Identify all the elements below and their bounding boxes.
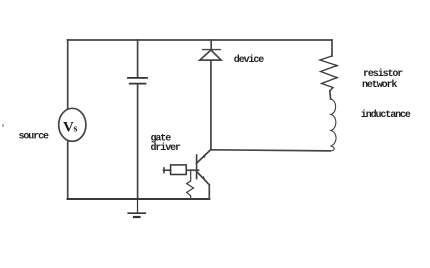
resistor: gate series resistor (box) <box>171 165 187 175</box>
transistor collector arrowhead <box>203 153 207 159</box>
svg-text:network: network <box>362 79 397 91</box>
svg-text:V: V <box>63 120 74 136</box>
source Vs <box>59 108 86 141</box>
capacitor C <box>128 78 147 84</box>
transistor emitter arrowhead <box>202 176 206 181</box>
ground symbol <box>128 199 145 217</box>
svg-text:device: device <box>234 54 265 66</box>
svg-text:resistor: resistor <box>363 68 403 80</box>
wire: gate resistor to base bar <box>186 169 198 171</box>
wire: capacitor top stub from top bus <box>137 40 139 77</box>
svg-text:inductance: inductance <box>361 109 411 121</box>
diode D (device) <box>200 50 221 61</box>
inductor L (inductance) <box>330 99 336 151</box>
stray scan speck (decorative) <box>2 124 4 127</box>
wire: diode stub from top bus <box>210 40 212 49</box>
wire: left vertical from top bus down to source top <box>67 40 69 108</box>
svg-text:s: s <box>74 124 78 135</box>
wire: switch node horizontal to inductor bottom <box>211 150 330 151</box>
svg-text:driver: driver <box>151 142 182 154</box>
wire: left vertical from source bottom to bottom bus <box>67 142 69 200</box>
wire: diode anode down to switch node <box>210 61 212 150</box>
wire: bottom bus (ground rail) <box>68 198 210 200</box>
wire: right vertical from top bus to resistor top <box>331 40 333 56</box>
resistor: base pulldown (zigzag to ground rail) <box>187 170 194 199</box>
wire: resistor to inductor <box>329 91 332 99</box>
wire: emitter down to bottom bus <box>208 185 210 199</box>
resistor network (zigzag) <box>320 56 338 91</box>
wire: gate drive input stub with tick <box>164 168 171 173</box>
transistor Q (switch) <box>197 150 211 185</box>
wire: capacitor bottom stub down to bottom bus <box>137 85 139 199</box>
svg-text:source: source <box>19 132 50 143</box>
label: Vs (inside source circle) <box>63 120 78 136</box>
wire: top bus from left corner to right corner <box>68 39 333 41</box>
